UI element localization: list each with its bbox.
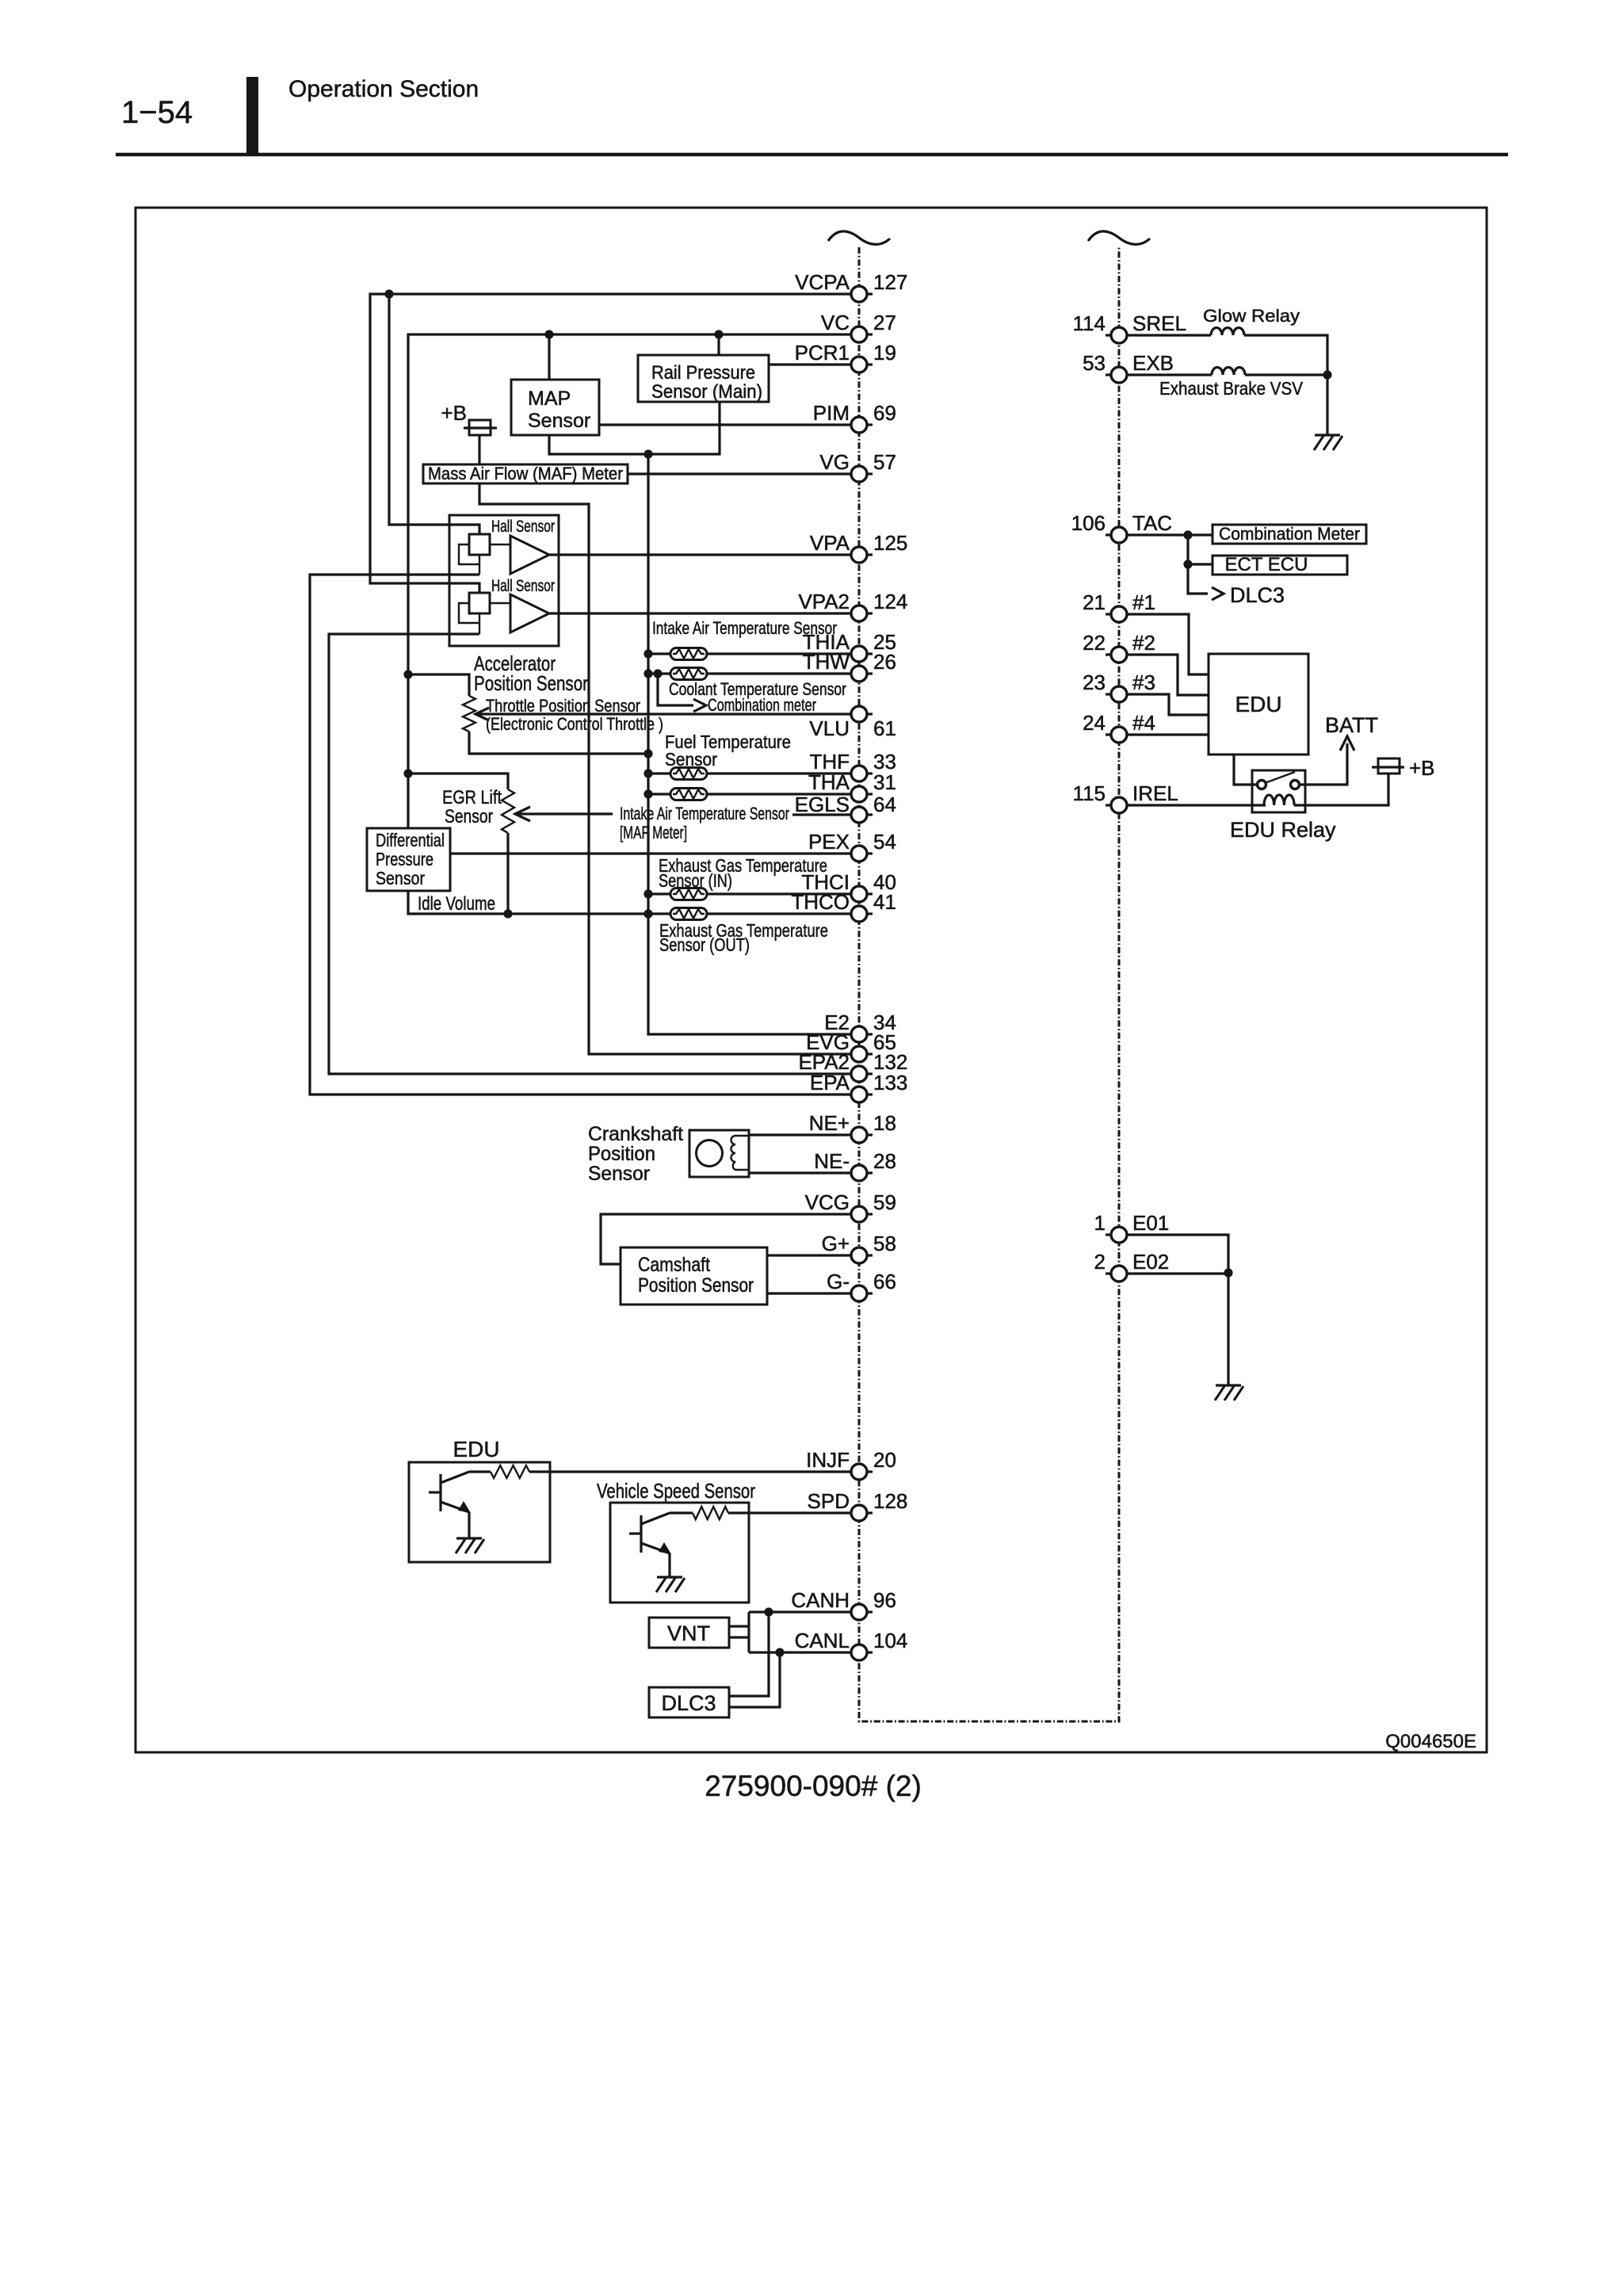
EDU driver box	[409, 1462, 550, 1562]
VNT box	[649, 1618, 729, 1648]
wire VCPA net to accelerator sensor	[370, 294, 851, 594]
pin E02 2	[1094, 1250, 1170, 1282]
wire injector #4	[1127, 733, 1209, 735]
pin G- 66	[827, 1270, 896, 1301]
DLC3 box	[649, 1687, 729, 1717]
pin THF 33	[809, 750, 896, 781]
pin IREL 115	[1073, 781, 1178, 813]
transistor Q VSS	[629, 1513, 671, 1554]
wire SREL to glow relay	[1127, 334, 1211, 336]
pin THCI 40	[801, 870, 896, 902]
power source +B (MAF meter)	[441, 401, 497, 435]
svg-text:Glow Relay: Glow Relay	[1203, 306, 1300, 326]
svg-text:66: 66	[873, 1270, 896, 1293]
svg-text:#4: #4	[1132, 711, 1155, 735]
intake air temperature sensor label	[652, 618, 837, 638]
wire THW to combination meter	[658, 674, 693, 705]
header title	[288, 76, 479, 102]
wire THA	[707, 793, 851, 795]
pin E2 34	[824, 1010, 896, 1042]
junction THF	[643, 769, 652, 777]
svg-text:Mass Air Flow (MAF) Meter: Mass Air Flow (MAF) Meter	[428, 464, 623, 483]
wire TAC branch down	[1188, 535, 1208, 594]
svg-text:127: 127	[873, 270, 907, 294]
junction E01/E02	[1224, 1268, 1232, 1277]
VNT stubs	[729, 1626, 749, 1637]
junction THW	[643, 669, 652, 678]
hall element 1 loop	[459, 544, 479, 575]
junction VC / rail sensor	[714, 330, 723, 338]
pin EGLS 64	[795, 793, 896, 823]
pin EPA2 132	[798, 1050, 907, 1082]
junction VC / MAP	[544, 330, 553, 338]
svg-text:BATT: BATT	[1325, 713, 1378, 737]
svg-text:VG: VG	[819, 450, 850, 474]
svg-text:EGLS: EGLS	[795, 793, 850, 816]
transistor Q EDU	[429, 1472, 471, 1513]
svg-text:VCPA: VCPA	[795, 270, 850, 294]
svg-text:69: 69	[873, 401, 896, 425]
relay switch contacts	[1258, 772, 1300, 789]
svg-text:Q004650E: Q004650E	[1385, 1731, 1476, 1752]
svg-text:NE-: NE-	[814, 1149, 850, 1173]
accelerator position sensor label	[474, 651, 588, 695]
caption 275900-090# (2)	[705, 1770, 922, 1802]
svg-text:Rail Pressure: Rail Pressure	[651, 362, 755, 384]
wire CANH	[749, 1610, 851, 1613]
svg-text:IREL: IREL	[1132, 781, 1178, 805]
svg-text:SPD: SPD	[808, 1489, 850, 1513]
junction ground chain / THCO	[643, 909, 652, 918]
svg-text:Combination meter: Combination meter	[708, 695, 816, 715]
amplifier 2	[490, 594, 549, 632]
diagram frame	[136, 208, 1487, 1752]
svg-text:Crankshaft: Crankshaft	[588, 1123, 683, 1145]
svg-text:+B: +B	[441, 401, 467, 425]
svg-text:21: 21	[1083, 590, 1106, 614]
arrow to combination meter	[693, 699, 706, 712]
junction THA	[643, 789, 652, 798]
svg-text:G+: G+	[822, 1232, 850, 1255]
svg-text:PEX: PEX	[808, 830, 850, 854]
coolant temperature sensor label	[669, 679, 846, 699]
wire injector #3	[1127, 694, 1209, 715]
vehicle speed sensor box	[610, 1503, 749, 1603]
svg-text:TAC: TAC	[1132, 511, 1172, 535]
wire to ECT ECU	[1188, 563, 1212, 565]
ground VSS	[656, 1577, 685, 1592]
svg-text:Position Sensor: Position Sensor	[474, 671, 588, 695]
svg-text:18: 18	[873, 1111, 896, 1135]
ground EDU driver	[456, 1538, 484, 1553]
CAN fork	[747, 1612, 750, 1652]
svg-text:125: 125	[873, 531, 907, 555]
pin SPD 128	[808, 1489, 908, 1521]
pin VPA2 124	[798, 590, 907, 621]
wire VC net	[408, 334, 851, 828]
wire injector #2	[1127, 655, 1209, 695]
pin #4 24	[1083, 711, 1155, 743]
svg-text:Sensor: Sensor	[528, 410, 590, 432]
svg-text:26: 26	[873, 650, 896, 674]
wire G+	[767, 1254, 851, 1256]
wire E02	[1127, 1272, 1228, 1274]
BATT label	[1325, 713, 1378, 737]
fuel temperature sensor label	[665, 732, 791, 770]
svg-text:#3: #3	[1132, 670, 1155, 694]
hall element 2	[469, 593, 490, 613]
pin EPA 133	[810, 1071, 908, 1102]
wire VCPA branch to hall sensor 1 supply	[389, 294, 479, 535]
EGR wiper arrow	[515, 807, 530, 821]
wire INJF	[529, 1470, 851, 1473]
svg-text:Sensor: Sensor	[588, 1163, 650, 1185]
svg-text:VC: VC	[821, 311, 850, 334]
EDU relay box	[1252, 770, 1305, 812]
wire NE+	[749, 1133, 851, 1136]
junction TAC / combination meter	[1183, 530, 1192, 539]
exhaust brake VSV label	[1159, 378, 1304, 399]
thermistor THCO	[670, 908, 707, 920]
svg-text:Exhaust Brake VSV: Exhaust Brake VSV	[1159, 378, 1304, 399]
pin CANL 104	[795, 1629, 908, 1660]
resistor in VSS	[670, 1511, 693, 1514]
svg-text:2: 2	[1094, 1250, 1106, 1274]
svg-text:61: 61	[873, 716, 896, 740]
svg-text:23: 23	[1083, 670, 1106, 694]
combination meter box	[1212, 524, 1366, 544]
junction EGR / THCO line	[503, 909, 512, 918]
svg-text:E01: E01	[1132, 1211, 1169, 1235]
hall sensor 1 label	[491, 518, 555, 536]
junction VC / TPS	[403, 670, 412, 678]
svg-text:57: 57	[873, 450, 896, 474]
svg-text:275900-090# (2): 275900-090# (2)	[705, 1770, 922, 1802]
svg-text:Sensor: Sensor	[445, 806, 493, 827]
junction CANH / DLC3	[764, 1607, 773, 1616]
junction CANL / DLC3	[775, 1648, 784, 1656]
page number 1-54	[121, 95, 193, 130]
svg-text:Differential: Differential	[376, 830, 445, 850]
svg-text:+B: +B	[1409, 756, 1435, 780]
power source +B (EDU relay)	[1372, 756, 1435, 780]
ECU connector outline (dash-dot)	[859, 247, 1119, 1721]
wire EDU to relay switch	[1234, 755, 1258, 785]
svg-text:Operation Section: Operation Section	[288, 76, 479, 102]
pin NE- 28	[814, 1149, 896, 1181]
thermistor THIA	[648, 652, 670, 655]
break symbol left ECU line	[828, 231, 890, 245]
svg-text:24: 24	[1083, 711, 1106, 735]
pin VPA 125	[810, 531, 908, 563]
wire MAF meter to EVG	[479, 483, 851, 1054]
wire DLC3 to CANH	[729, 1612, 769, 1696]
svg-text:124: 124	[873, 590, 907, 613]
svg-text:EGR Lift: EGR Lift	[442, 787, 502, 808]
EGR bottom wire	[506, 833, 509, 914]
svg-text:CANH: CANH	[791, 1588, 850, 1612]
svg-text:114: 114	[1073, 311, 1106, 335]
wire VPA	[549, 553, 851, 556]
svg-text:EXB: EXB	[1132, 351, 1174, 375]
wire PEX	[450, 852, 851, 854]
pin VLU 61	[809, 706, 896, 740]
idle volume label	[418, 893, 495, 915]
MAP sensor box	[511, 380, 599, 435]
junction TAC / ECT ECU	[1183, 560, 1192, 568]
pin THA 31	[808, 770, 896, 802]
thermistor THF	[648, 772, 670, 774]
wire VPA2	[549, 612, 851, 614]
pin PIM 69	[813, 401, 896, 433]
hall element 1	[469, 534, 490, 555]
svg-text:1: 1	[1094, 1211, 1106, 1235]
rail pressure sensor box	[638, 355, 769, 403]
wire NE-	[749, 1171, 851, 1174]
junction THCI	[643, 889, 652, 898]
wire VC to rail pressure sensor	[717, 334, 720, 355]
EDU driver label	[453, 1437, 499, 1461]
EDU driver emitter to ground	[468, 1512, 470, 1538]
wire THCO	[707, 912, 851, 915]
svg-text:20: 20	[873, 1448, 896, 1472]
svg-text:#1: #1	[1132, 590, 1155, 614]
pin VC 27	[821, 311, 896, 342]
svg-text:EDU: EDU	[1235, 692, 1281, 716]
BATT arrow	[1340, 736, 1354, 751]
wire injector #1	[1127, 614, 1209, 674]
wire EPA net (hall 1 ground)	[310, 575, 851, 1095]
idle volume wire	[408, 891, 670, 914]
svg-text:EDU Relay: EDU Relay	[1230, 818, 1336, 842]
solenoid coil exhaust brake VSV	[1212, 368, 1245, 376]
thermistor THCI	[648, 892, 670, 895]
VSS emitter to ground	[668, 1553, 670, 1577]
wire CANL	[749, 1651, 851, 1653]
svg-text:59: 59	[873, 1190, 896, 1214]
DLC3 arrow label	[1230, 583, 1285, 607]
resistor in EDU driver	[469, 1470, 491, 1473]
svg-text:53: 53	[1083, 351, 1106, 375]
svg-text:PIM: PIM	[813, 401, 850, 425]
hall sensor 2 label	[491, 577, 555, 595]
EGR lift sensor label	[442, 787, 502, 827]
amplifier 1	[490, 536, 549, 574]
header bar	[246, 77, 258, 156]
wire glow relay to ground	[1244, 335, 1327, 375]
svg-text:Vehicle Speed Sensor: Vehicle Speed Sensor	[597, 1479, 755, 1503]
junction THW to combination meter	[653, 669, 662, 678]
wire EXB to exhaust brake VSV	[1127, 373, 1212, 376]
junction ground chain top	[643, 449, 652, 458]
wire DLC3 to CANL	[729, 1652, 780, 1707]
svg-text:DLC3: DLC3	[1230, 583, 1285, 607]
svg-text:G-: G-	[827, 1270, 850, 1293]
wire TAC	[1127, 533, 1212, 536]
thermistor THW	[648, 672, 670, 674]
svg-text:104: 104	[873, 1629, 907, 1652]
potentiometer EGR lift sensor	[502, 789, 514, 833]
svg-text:VPA: VPA	[810, 531, 850, 555]
pin THIA 25	[803, 630, 896, 662]
TPS bottom to ground chain	[469, 732, 648, 754]
wire EGLS	[792, 813, 851, 816]
svg-text:106: 106	[1071, 511, 1106, 535]
svg-text:41: 41	[873, 890, 896, 914]
wire VC to EGR lift sensor	[408, 774, 508, 789]
wire VC to MAP sensor	[548, 334, 550, 380]
crankshaft position sensor label	[588, 1123, 683, 1185]
svg-text:Hall Sensor: Hall Sensor	[491, 577, 555, 595]
svg-text:Pressure: Pressure	[376, 849, 433, 869]
intake air temp sensor MAF label	[620, 804, 789, 842]
svg-text:INJF: INJF	[806, 1448, 850, 1472]
combination meter label	[708, 695, 816, 715]
pin THW 26	[803, 650, 896, 682]
svg-text:96: 96	[873, 1588, 896, 1612]
pin E01 1	[1094, 1211, 1170, 1243]
EDU box	[1209, 654, 1308, 755]
wire THCI	[707, 892, 851, 895]
EGR wiper wire EGLS	[515, 812, 613, 815]
svg-text:Idle Volume: Idle Volume	[418, 893, 495, 915]
wire E01	[1127, 1235, 1228, 1273]
svg-text:Combination Meter: Combination Meter	[1219, 524, 1360, 544]
header rule	[116, 153, 1508, 157]
svg-text:EPA: EPA	[810, 1071, 850, 1095]
svg-text:Sensor (OUT): Sensor (OUT)	[659, 934, 750, 955]
MAF meter box	[423, 464, 628, 483]
pin #3 23	[1083, 670, 1155, 702]
wire VG	[628, 472, 851, 475]
pin #2 22	[1083, 631, 1155, 663]
wire relay switch to BATT	[1298, 743, 1347, 785]
accelerator position sensor box	[449, 515, 559, 646]
wire +B to MAF meter	[478, 435, 480, 464]
svg-text:115: 115	[1073, 781, 1106, 805]
svg-text:133: 133	[873, 1071, 907, 1095]
junction SREL/EXB ground	[1323, 370, 1331, 379]
figure id Q004650E	[1385, 1731, 1476, 1752]
TPS wiper arrow	[475, 708, 489, 720]
pin G+ 58	[822, 1232, 896, 1263]
wire IREL to +B	[1294, 774, 1388, 805]
pin INJF 20	[806, 1448, 896, 1480]
svg-text:31: 31	[873, 770, 896, 794]
potentiometer TPS	[463, 696, 475, 732]
junction THIA	[643, 649, 652, 658]
svg-text:VNT: VNT	[667, 1622, 710, 1645]
svg-text:58: 58	[873, 1232, 896, 1255]
svg-text:CANL: CANL	[795, 1629, 850, 1652]
wire SPD	[728, 1511, 851, 1514]
wire THF	[707, 772, 851, 774]
pin EXB 53	[1083, 351, 1174, 383]
svg-text:SREL: SREL	[1132, 311, 1186, 335]
pin NE+ 18	[809, 1111, 896, 1143]
wire THIA	[707, 652, 851, 655]
svg-text:1−54: 1−54	[121, 95, 193, 130]
svg-text:54: 54	[873, 830, 896, 854]
exhaust gas temperature sensor IN label	[659, 855, 827, 891]
svg-text:19: 19	[873, 341, 896, 365]
pin #1 21	[1083, 590, 1155, 622]
glow relay label	[1203, 306, 1300, 326]
throttle position sensor label	[486, 696, 663, 734]
wire E0 to ground	[1227, 1274, 1229, 1385]
wire VCG	[601, 1214, 851, 1264]
svg-text:28: 28	[873, 1149, 896, 1173]
exhaust gas temperature sensor OUT label	[659, 920, 828, 955]
svg-text:Hall Sensor: Hall Sensor	[491, 518, 555, 536]
wire PIM	[599, 423, 851, 426]
junction VCPA branch	[384, 289, 393, 298]
pin EVG 65	[806, 1030, 896, 1062]
svg-text:Position Sensor: Position Sensor	[638, 1274, 754, 1297]
differential pressure sensor box	[367, 828, 450, 891]
pin VG 57	[819, 450, 896, 482]
svg-text:ECT ECU: ECT ECU	[1225, 554, 1308, 575]
svg-text:Camshaft: Camshaft	[638, 1254, 710, 1276]
svg-text:DLC3: DLC3	[661, 1691, 716, 1715]
relay coil glow relay	[1211, 328, 1244, 335]
svg-text:VPA2: VPA2	[798, 590, 850, 613]
hall element 2 loop	[459, 603, 479, 634]
EDU relay label	[1230, 818, 1336, 842]
wire VC to TPS	[408, 674, 469, 696]
TPS wiper wire VLU	[476, 712, 851, 715]
svg-text:64: 64	[873, 793, 896, 816]
wire EPA2 net (hall 2 ground)	[329, 634, 851, 1074]
svg-text:Position: Position	[588, 1143, 655, 1165]
svg-text:VCG: VCG	[805, 1190, 850, 1214]
relay coil EDU relay	[1126, 804, 1266, 806]
ground E01/E02	[1215, 1385, 1243, 1400]
junction TPS / ground chain	[643, 749, 652, 758]
svg-text:#2: #2	[1132, 631, 1155, 655]
pin PEX 54	[808, 830, 896, 861]
svg-text:Sensor (Main): Sensor (Main)	[651, 381, 762, 403]
svg-text:27: 27	[873, 311, 896, 334]
svg-text:THW: THW	[803, 650, 850, 674]
svg-text:VLU: VLU	[809, 716, 850, 740]
svg-text:NE+: NE+	[809, 1111, 850, 1135]
pin SREL 114	[1073, 311, 1186, 343]
crankshaft position sensor	[689, 1130, 749, 1177]
ground glow relay / VSV	[1314, 435, 1342, 450]
wire THW	[707, 672, 851, 674]
vehicle speed sensor label	[597, 1479, 755, 1503]
break symbol right ECU line	[1088, 231, 1150, 245]
thermistor THA	[648, 793, 670, 795]
ECT ECU box	[1212, 554, 1347, 575]
wire sensor ground chain (MAP/rail bottoms to E2)	[549, 402, 720, 454]
pin VCG 59	[805, 1190, 896, 1222]
svg-text:Throttle Position Sensor: Throttle Position Sensor	[486, 696, 640, 716]
pin TAC 106	[1071, 511, 1172, 543]
svg-text:MAP: MAP	[528, 388, 571, 410]
junction VC / EGR	[403, 769, 412, 777]
svg-text:(Electronic Control Throttle ): (Electronic Control Throttle )	[486, 714, 663, 734]
wire VSV to ground	[1245, 375, 1327, 435]
pin VCPA 127	[795, 270, 907, 302]
svg-text:Intake Air Temperature Sensor: Intake Air Temperature Sensor	[620, 804, 789, 823]
svg-text:THCO: THCO	[791, 890, 850, 914]
pin CANH 96	[791, 1588, 896, 1620]
wire PCR1	[769, 363, 851, 365]
svg-text:EDU: EDU	[453, 1437, 499, 1461]
svg-text:128: 128	[873, 1489, 907, 1513]
